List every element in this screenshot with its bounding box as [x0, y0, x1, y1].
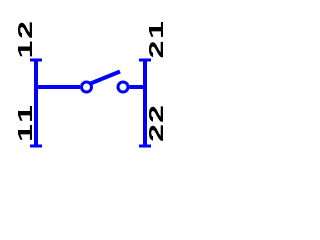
contact circle left: [82, 82, 92, 92]
contact circle right: [118, 82, 128, 92]
wire left rail to contact: [36, 85, 80, 89]
svg-text:1: 1: [145, 21, 167, 39]
right bus rail: [143, 59, 147, 147]
left bus rail: [34, 59, 38, 147]
svg-text:1: 1: [14, 124, 36, 142]
svg-text:2: 2: [145, 124, 167, 142]
terminal tick bottom-right: [139, 145, 151, 148]
switch blade (open): [91, 72, 121, 84]
svg-text:2: 2: [145, 41, 167, 59]
svg-text:2: 2: [14, 21, 36, 39]
terminal tick bottom-left: [30, 145, 42, 148]
svg-text:1: 1: [14, 105, 36, 123]
svg-text:2: 2: [145, 105, 167, 123]
wire contact to right rail: [130, 85, 146, 89]
terminal tick top-right: [139, 59, 151, 62]
svg-text:1: 1: [14, 40, 36, 58]
terminal tick top-left: [30, 59, 42, 62]
